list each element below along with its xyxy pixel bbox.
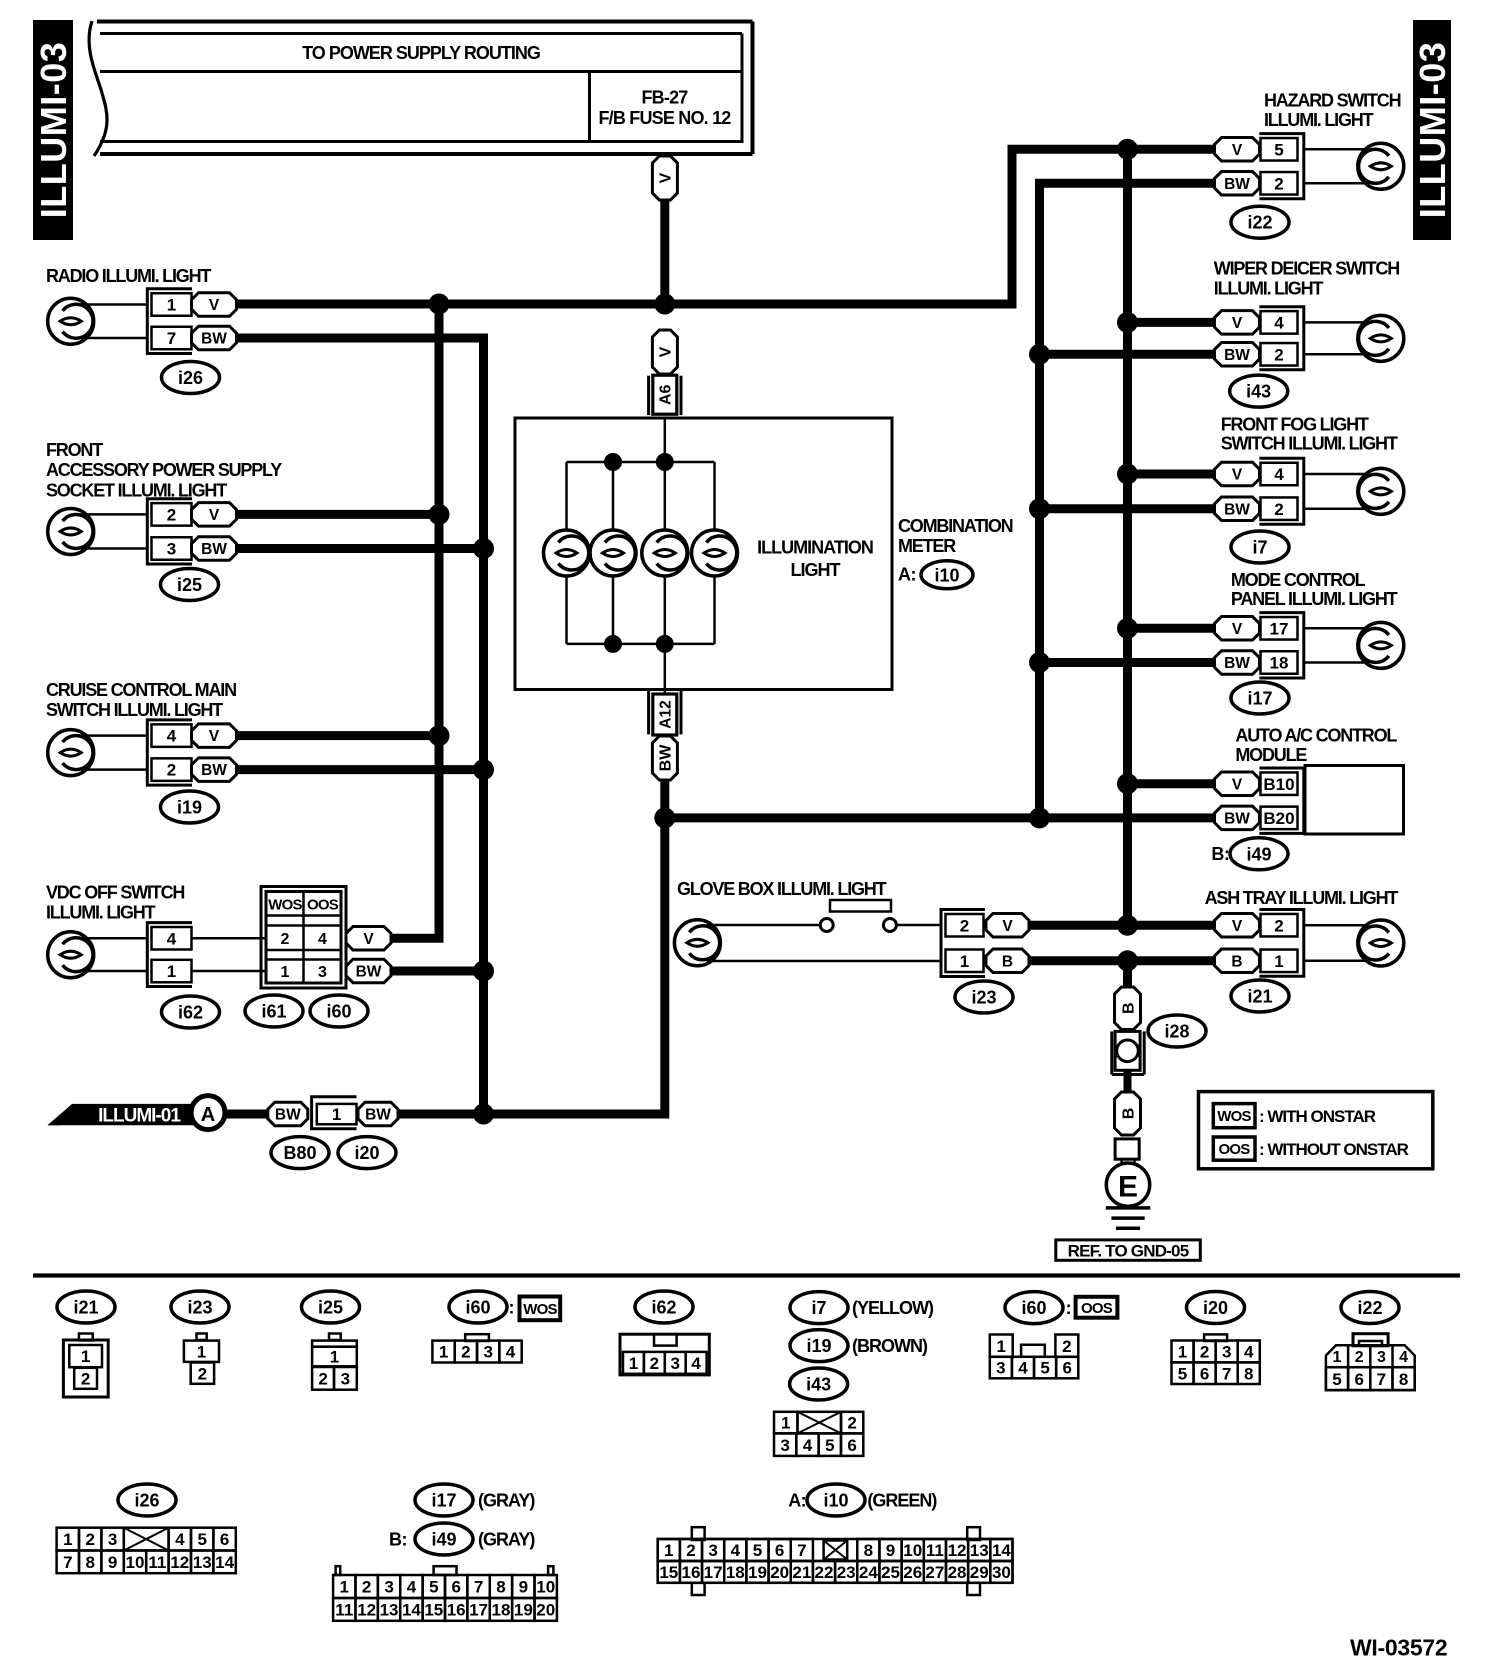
svg-text:i17: i17	[431, 1490, 456, 1510]
label i25 view	[302, 1291, 360, 1323]
connector i7 pin 4	[1261, 463, 1298, 486]
svg-text:i7: i7	[1252, 537, 1267, 557]
wire i17 V row	[1128, 624, 1215, 633]
node i19 BW junction	[473, 759, 494, 780]
ground splice box	[1115, 1139, 1139, 1164]
label i20	[338, 1137, 396, 1169]
svg-text:1: 1	[664, 1541, 673, 1560]
terminal i49 V	[1215, 772, 1260, 796]
svg-text:V: V	[363, 931, 374, 948]
wire meter internal feed bottom	[664, 644, 667, 694]
connector i25 pin 2	[152, 503, 192, 526]
svg-text:25: 25	[881, 1563, 900, 1582]
connector i62 pin 1	[152, 960, 192, 983]
svg-text:20: 20	[536, 1601, 555, 1620]
svg-text:2: 2	[85, 1530, 94, 1549]
svg-text:FRONT FOG LIGHT: FRONT FOG LIGHT	[1221, 414, 1369, 434]
svg-text:BW: BW	[1224, 501, 1250, 518]
svg-text:2: 2	[318, 1369, 327, 1388]
svg-text:i7: i7	[811, 1298, 826, 1318]
svg-text:B: B	[1231, 953, 1242, 970]
terminal i60 BW	[346, 959, 391, 983]
svg-text:12: 12	[357, 1601, 376, 1620]
wire i19 bulb leads	[81, 736, 148, 770]
terminal i7 V	[1215, 462, 1260, 486]
svg-text:i43: i43	[806, 1374, 831, 1394]
bulb i19	[48, 730, 94, 776]
node ash tray B junction	[1117, 950, 1138, 971]
label ILLUMINATION LIGHT	[757, 537, 873, 580]
label i7	[1231, 531, 1289, 563]
terminal ground B lower	[1115, 1092, 1141, 1135]
svg-text:V: V	[658, 346, 675, 357]
node meter BW junction	[654, 807, 675, 828]
svg-text:11: 11	[148, 1553, 166, 1572]
svg-text:6: 6	[1063, 1359, 1072, 1378]
svg-text:3: 3	[108, 1530, 117, 1549]
svg-text:ILLUMI-03: ILLUMI-03	[1412, 42, 1453, 219]
svg-text:7: 7	[474, 1578, 483, 1597]
label i17	[1231, 682, 1289, 714]
node ash tray V junction	[1117, 915, 1138, 936]
svg-text:i62: i62	[178, 1002, 203, 1022]
connector i23 pin 2	[946, 914, 984, 937]
svg-text:ASH TRAY ILLUMI. LIGHT: ASH TRAY ILLUMI. LIGHT	[1205, 888, 1399, 908]
svg-text:AUTO A/C CONTROL: AUTO A/C CONTROL	[1235, 725, 1397, 745]
svg-text:i17: i17	[1247, 688, 1272, 708]
node main bus / meter V	[654, 294, 675, 315]
svg-text:1: 1	[340, 1578, 349, 1597]
node i17 BW junction	[1029, 652, 1050, 673]
connector i60 WOS pinout	[432, 1334, 521, 1362]
svg-text:7: 7	[1222, 1364, 1231, 1383]
svg-text:4: 4	[407, 1578, 417, 1597]
svg-text:B10: B10	[1263, 775, 1294, 794]
svg-text:V: V	[1232, 315, 1243, 332]
svg-text:2: 2	[1274, 345, 1283, 364]
connector i26 pin 1	[152, 293, 192, 316]
connector i20 pin 1	[317, 1104, 357, 1124]
node i25 BW junction	[473, 538, 494, 559]
svg-text:3: 3	[708, 1541, 717, 1560]
label i60	[310, 995, 368, 1027]
svg-text:11: 11	[926, 1541, 944, 1560]
svg-text:20: 20	[770, 1563, 789, 1582]
svg-text:i62: i62	[651, 1297, 676, 1317]
wire meter internal feed top	[664, 420, 667, 463]
label i61	[245, 995, 303, 1027]
wire right V bus	[1123, 149, 1132, 925]
bulb i23	[674, 920, 720, 966]
svg-text:2: 2	[960, 916, 969, 935]
connector i26 pin 7	[152, 327, 192, 350]
svg-text:i19: i19	[177, 797, 202, 817]
svg-text:A:: A:	[788, 1490, 806, 1510]
svg-text:4: 4	[731, 1541, 741, 1560]
node i7 V junction	[1117, 464, 1138, 485]
fusible link i28	[1112, 1031, 1144, 1074]
svg-text:4: 4	[1274, 465, 1284, 484]
terminal meter BW	[652, 736, 677, 780]
wire i25 V to left V bus	[235, 510, 439, 519]
connector i49 pin B20	[1261, 807, 1298, 830]
svg-text:ACCESSORY POWER SUPPLY: ACCESSORY POWER SUPPLY	[46, 460, 282, 480]
svg-text:i23: i23	[971, 987, 996, 1007]
svg-text:6: 6	[847, 1436, 856, 1455]
svg-text:BW: BW	[1224, 176, 1250, 193]
svg-text:1: 1	[167, 962, 176, 981]
bulb illumination light 1	[544, 530, 590, 576]
svg-text::: :	[1066, 1298, 1072, 1318]
terminal B80 BW	[268, 1102, 308, 1126]
bulb illumination light 4	[692, 530, 738, 576]
svg-text:6: 6	[220, 1530, 229, 1549]
svg-text:1: 1	[997, 1337, 1006, 1356]
svg-text:3: 3	[996, 1359, 1005, 1378]
label i43	[1230, 375, 1288, 407]
svg-text:19: 19	[514, 1601, 533, 1620]
node connector A circle	[191, 1096, 225, 1130]
svg-text:10: 10	[126, 1553, 145, 1572]
terminal i19 V	[192, 724, 237, 748]
terminal i26 V	[192, 293, 237, 317]
svg-text:18: 18	[491, 1601, 510, 1620]
connector i23 pin 1	[946, 950, 984, 973]
svg-text:WOS: WOS	[1217, 1108, 1251, 1125]
wire glove box top lead	[707, 924, 820, 927]
svg-text:3: 3	[341, 1369, 350, 1388]
svg-text:8: 8	[1399, 1370, 1408, 1389]
connector i21 pin 1	[1261, 950, 1298, 973]
svg-text:B: B	[1120, 1002, 1137, 1014]
svg-text:i60: i60	[465, 1297, 490, 1317]
svg-text:ILLUMI. LIGHT: ILLUMI. LIGHT	[46, 902, 156, 922]
svg-text:10: 10	[536, 1578, 555, 1597]
bulb i17	[1358, 622, 1404, 668]
svg-text:13: 13	[380, 1601, 399, 1620]
svg-text:BW: BW	[365, 1107, 391, 1124]
svg-text:BW: BW	[275, 1107, 301, 1124]
connector i25 pinout	[312, 1334, 357, 1390]
bulb i7	[1358, 468, 1404, 514]
svg-text:(GREEN): (GREEN)	[867, 1490, 937, 1510]
svg-text:i20: i20	[354, 1143, 379, 1163]
node right BW bus / meter BW row	[1029, 807, 1050, 828]
separator rule	[33, 1273, 1460, 1277]
label i22	[1231, 206, 1289, 238]
svg-text:WI-03572: WI-03572	[1350, 1634, 1447, 1660]
svg-text:4: 4	[803, 1436, 813, 1455]
bulb i22	[1358, 143, 1404, 189]
wire ILLUMI-01 bus to meter BW riser	[398, 779, 665, 1114]
svg-text:2: 2	[281, 931, 290, 948]
svg-text:CRUISE CONTROL MAIN: CRUISE CONTROL MAIN	[46, 680, 236, 700]
svg-text:2: 2	[1062, 1337, 1071, 1356]
svg-text:4: 4	[167, 929, 177, 948]
svg-text:V: V	[1232, 142, 1243, 159]
combination meter box	[515, 418, 892, 690]
svg-text:i21: i21	[73, 1297, 98, 1317]
terminal i43 V	[1215, 311, 1260, 335]
label REF. TO GND-05	[1056, 1240, 1201, 1261]
svg-text:2: 2	[198, 1364, 207, 1383]
label i23 view	[171, 1291, 229, 1323]
svg-text:1: 1	[81, 1347, 90, 1366]
svg-text:F/B FUSE NO. 12: F/B FUSE NO. 12	[598, 108, 731, 128]
label GLOVE BOX ILLUMI. LIGHT	[677, 879, 887, 899]
svg-text:16: 16	[447, 1601, 466, 1620]
auto A/C module box	[1305, 766, 1404, 835]
wire meter lamp rails	[567, 462, 715, 644]
connector i7 pin 2	[1261, 497, 1298, 520]
wire glove box switch to i23	[896, 924, 941, 927]
svg-text:V: V	[209, 297, 220, 314]
node main bus / right V bus	[1117, 139, 1138, 160]
label i19	[161, 791, 219, 823]
wire main V bus from fuse	[660, 199, 669, 308]
connector i26 shell	[147, 289, 192, 354]
svg-text:SWITCH ILLUMI. LIGHT: SWITCH ILLUMI. LIGHT	[1221, 433, 1398, 453]
connector i22 pin 2	[1261, 172, 1298, 195]
terminal fuse V	[652, 156, 677, 200]
svg-text:ILLUMI. LIGHT: ILLUMI. LIGHT	[1264, 110, 1374, 130]
svg-text:2: 2	[650, 1354, 659, 1373]
svg-text:2: 2	[847, 1414, 856, 1433]
svg-text:ILLUMI-01: ILLUMI-01	[98, 1105, 181, 1126]
svg-text:18: 18	[1270, 654, 1289, 673]
svg-text:1: 1	[439, 1343, 448, 1362]
connector i62 pin 4	[152, 927, 192, 950]
connector i21 pinout	[63, 1334, 108, 1398]
svg-text:i60: i60	[326, 1001, 351, 1021]
wire i60 BW to left BW bus	[390, 967, 484, 976]
label i21	[1231, 980, 1289, 1012]
svg-text:2: 2	[1355, 1349, 1364, 1366]
connector i25 shell	[147, 499, 192, 564]
svg-text:12: 12	[948, 1541, 967, 1560]
svg-text:i22: i22	[1357, 1298, 1382, 1318]
svg-text:i21: i21	[1247, 986, 1272, 1006]
svg-text:19: 19	[748, 1563, 767, 1582]
connector i19 shell	[147, 720, 192, 785]
terminal i7 BW	[1215, 497, 1260, 521]
connector meter pin A12	[649, 691, 681, 735]
wire i7 bulb leads	[1304, 474, 1371, 509]
svg-text:SWITCH ILLUMI. LIGHT: SWITCH ILLUMI. LIGHT	[46, 700, 223, 720]
svg-text:i60: i60	[1021, 1298, 1046, 1318]
terminal i19 BW	[192, 758, 237, 782]
svg-text:A12: A12	[657, 700, 674, 728]
svg-text:5: 5	[1332, 1370, 1341, 1389]
svg-text:i43: i43	[1246, 382, 1271, 402]
svg-text:COMBINATION: COMBINATION	[898, 516, 1013, 536]
label i26	[162, 362, 220, 394]
connector i20 pinout	[1172, 1334, 1260, 1384]
connector i26 pinout	[57, 1528, 236, 1574]
svg-text:14: 14	[402, 1601, 421, 1620]
svg-text:V: V	[209, 728, 220, 745]
svg-text:1: 1	[1333, 1349, 1342, 1366]
terminal i20 BW	[358, 1102, 398, 1126]
svg-text:17: 17	[704, 1563, 723, 1582]
svg-text:5: 5	[197, 1530, 206, 1549]
label HAZARD SWITCH ILLUMI. LIGHT	[1264, 90, 1401, 129]
label i60 OOS view	[1005, 1292, 1117, 1324]
connector i43 pinout	[774, 1412, 863, 1456]
node i17 V junction	[1117, 618, 1138, 639]
wire i43 BW row	[1040, 350, 1215, 359]
svg-text:3: 3	[1377, 1349, 1386, 1366]
wire meter BW row to auto A/C BW	[665, 813, 1215, 822]
svg-text:BW: BW	[201, 762, 227, 779]
wire right BW bus	[1040, 183, 1216, 818]
svg-text:i49: i49	[431, 1529, 456, 1549]
svg-text:V: V	[1232, 918, 1243, 935]
label i28	[1148, 1015, 1206, 1047]
connector i17 pin 17	[1261, 617, 1298, 640]
wire i7 BW row	[1040, 504, 1215, 513]
svg-text:1: 1	[167, 296, 176, 315]
bulb illumination light 2	[590, 530, 636, 576]
svg-text:13: 13	[970, 1541, 989, 1560]
wire ash tray B row	[1029, 956, 1215, 965]
power supply routing box	[89, 21, 752, 156]
svg-text:WOS: WOS	[268, 896, 302, 913]
svg-text:: WITH ONSTAR: : WITH ONSTAR	[1259, 1107, 1376, 1126]
terminal i25 V	[192, 503, 237, 527]
connector i22 pinout	[1326, 1334, 1415, 1390]
svg-text:REF. TO GND-05: REF. TO GND-05	[1068, 1242, 1189, 1261]
svg-text:BW: BW	[356, 964, 382, 981]
svg-text:11: 11	[335, 1601, 353, 1620]
node main bus / radio V	[429, 294, 450, 315]
connector meter pin A6	[649, 375, 681, 415]
svg-text:1: 1	[281, 964, 290, 981]
svg-text:1: 1	[332, 1105, 341, 1124]
svg-text:2: 2	[167, 761, 176, 780]
svg-text:4: 4	[506, 1343, 516, 1362]
connector i19 pin 2	[152, 758, 192, 781]
svg-text:2: 2	[1274, 500, 1283, 519]
ground E circle	[1106, 1163, 1149, 1206]
svg-text:30: 30	[992, 1563, 1011, 1582]
wire i21 bulb leads	[1304, 925, 1371, 961]
svg-text:i26: i26	[178, 368, 203, 388]
svg-text:3: 3	[384, 1578, 393, 1597]
terminal i25 BW	[192, 537, 237, 561]
connector i49 pin B10	[1261, 772, 1298, 795]
label COMBINATION METER	[898, 516, 1013, 585]
connector i43 pin 4	[1261, 311, 1298, 334]
wire left BW bus	[236, 338, 484, 1114]
svg-text:RADIO ILLUMI. LIGHT: RADIO ILLUMI. LIGHT	[46, 266, 211, 286]
svg-text:4: 4	[1399, 1349, 1408, 1366]
svg-text:4: 4	[1018, 1359, 1028, 1378]
svg-text:i28: i28	[1164, 1021, 1189, 1041]
node i60 BW junction	[473, 961, 494, 982]
label i62	[162, 996, 220, 1028]
svg-text:21: 21	[792, 1563, 811, 1582]
connector i10 pinout	[658, 1527, 1013, 1595]
svg-text:HAZARD SWITCH: HAZARD SWITCH	[1264, 90, 1401, 110]
svg-text:17: 17	[469, 1601, 488, 1620]
wire i7 V row	[1128, 470, 1215, 479]
svg-text:1: 1	[63, 1530, 72, 1549]
svg-text:2: 2	[167, 506, 176, 525]
label i21 view	[57, 1291, 115, 1323]
label i60 WOS view	[449, 1291, 560, 1323]
svg-text:4: 4	[1274, 314, 1284, 333]
svg-text:5: 5	[1274, 140, 1283, 159]
label i7 view	[790, 1292, 934, 1324]
connector i22 shell	[1259, 134, 1303, 199]
svg-text:4: 4	[1244, 1343, 1254, 1362]
svg-text:5: 5	[1040, 1359, 1049, 1378]
label i17 view	[415, 1484, 535, 1516]
wire i17 BW row	[1040, 658, 1215, 667]
svg-text:1: 1	[330, 1348, 339, 1367]
node i49 V junction	[1117, 773, 1138, 794]
svg-text:5: 5	[753, 1541, 762, 1560]
svg-text:V: V	[1232, 467, 1243, 484]
label RADIO ILLUMI. LIGHT	[46, 266, 211, 286]
label i23	[955, 981, 1013, 1013]
connector i17 pin 18	[1261, 651, 1298, 674]
terminal i22 BW	[1215, 172, 1260, 196]
connector i7 shell	[1259, 458, 1303, 524]
wire i49 V row	[1128, 779, 1215, 788]
svg-text:FRONT: FRONT	[46, 440, 103, 460]
svg-text:i25: i25	[177, 575, 202, 595]
svg-text:OOS: OOS	[1081, 1300, 1113, 1317]
wire i22 bulb leads	[1304, 149, 1371, 183]
label WI-03572	[1350, 1634, 1447, 1660]
svg-text:BW: BW	[1224, 347, 1250, 364]
svg-text:MODULE: MODULE	[1235, 745, 1307, 765]
wire ash tray V row	[1029, 921, 1215, 930]
label i49 view	[389, 1523, 535, 1555]
svg-text:9: 9	[519, 1578, 528, 1597]
svg-text:i49: i49	[1246, 844, 1271, 864]
svg-text:i23: i23	[187, 1297, 212, 1317]
svg-text::: :	[509, 1297, 515, 1317]
svg-text:A:: A:	[898, 564, 916, 584]
svg-text:7: 7	[63, 1553, 72, 1572]
terminal i60 V	[346, 927, 391, 951]
svg-text:4: 4	[691, 1354, 701, 1373]
wire i43 V row	[1128, 318, 1215, 327]
svg-text:V: V	[658, 172, 675, 183]
svg-text:i19: i19	[806, 1336, 831, 1356]
svg-text:27: 27	[925, 1563, 944, 1582]
label CRUISE CONTROL MAIN SWITCH ILLUMI. LIGHT	[46, 680, 236, 720]
svg-text:3: 3	[318, 964, 327, 981]
terminal i43 BW	[1215, 343, 1260, 367]
bulb i43	[1358, 315, 1404, 361]
label B: i49	[1211, 838, 1288, 870]
svg-text:ILLUMI. LIGHT: ILLUMI. LIGHT	[1214, 278, 1324, 298]
svg-text:6: 6	[1200, 1364, 1209, 1383]
svg-text:16: 16	[682, 1563, 701, 1582]
connector i22 pin 5	[1261, 138, 1298, 161]
svg-text:18: 18	[726, 1563, 745, 1582]
terminal i21 B	[1215, 949, 1260, 973]
svg-text:2: 2	[81, 1369, 90, 1388]
svg-text:26: 26	[903, 1563, 922, 1582]
net label banner ILLUMI-03 right	[1412, 20, 1453, 240]
svg-text:i25: i25	[318, 1297, 343, 1317]
svg-text:i20: i20	[1203, 1298, 1228, 1318]
